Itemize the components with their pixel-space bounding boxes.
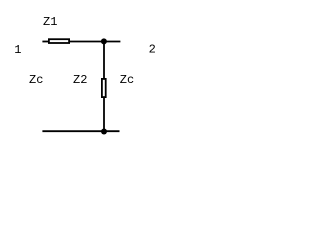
svg-text:Z1: Z1 [43, 15, 57, 29]
svg-text:Zc: Zc [29, 73, 43, 87]
resistor Z2 (shunt impedance, vertical body) [102, 79, 106, 97]
wire: Z2 down to bottom rail [103, 97, 105, 131]
svg-text:Z2: Z2 [73, 73, 87, 87]
wire: left lead into Z1 [42, 41, 49, 43]
svg-text:1: 1 [14, 43, 21, 57]
svg-text:Zc: Zc [120, 73, 134, 87]
wire: Z1 to node and on to port 2 [70, 41, 121, 43]
resistor Z1 (series impedance, horizontal body) [49, 39, 69, 43]
wire: node down to Z2 [103, 41, 105, 78]
node junction dot (bottom) [101, 129, 107, 135]
node junction dot (top) [101, 38, 107, 44]
wire: bottom return rail [42, 130, 119, 132]
svg-text:2: 2 [149, 42, 156, 56]
